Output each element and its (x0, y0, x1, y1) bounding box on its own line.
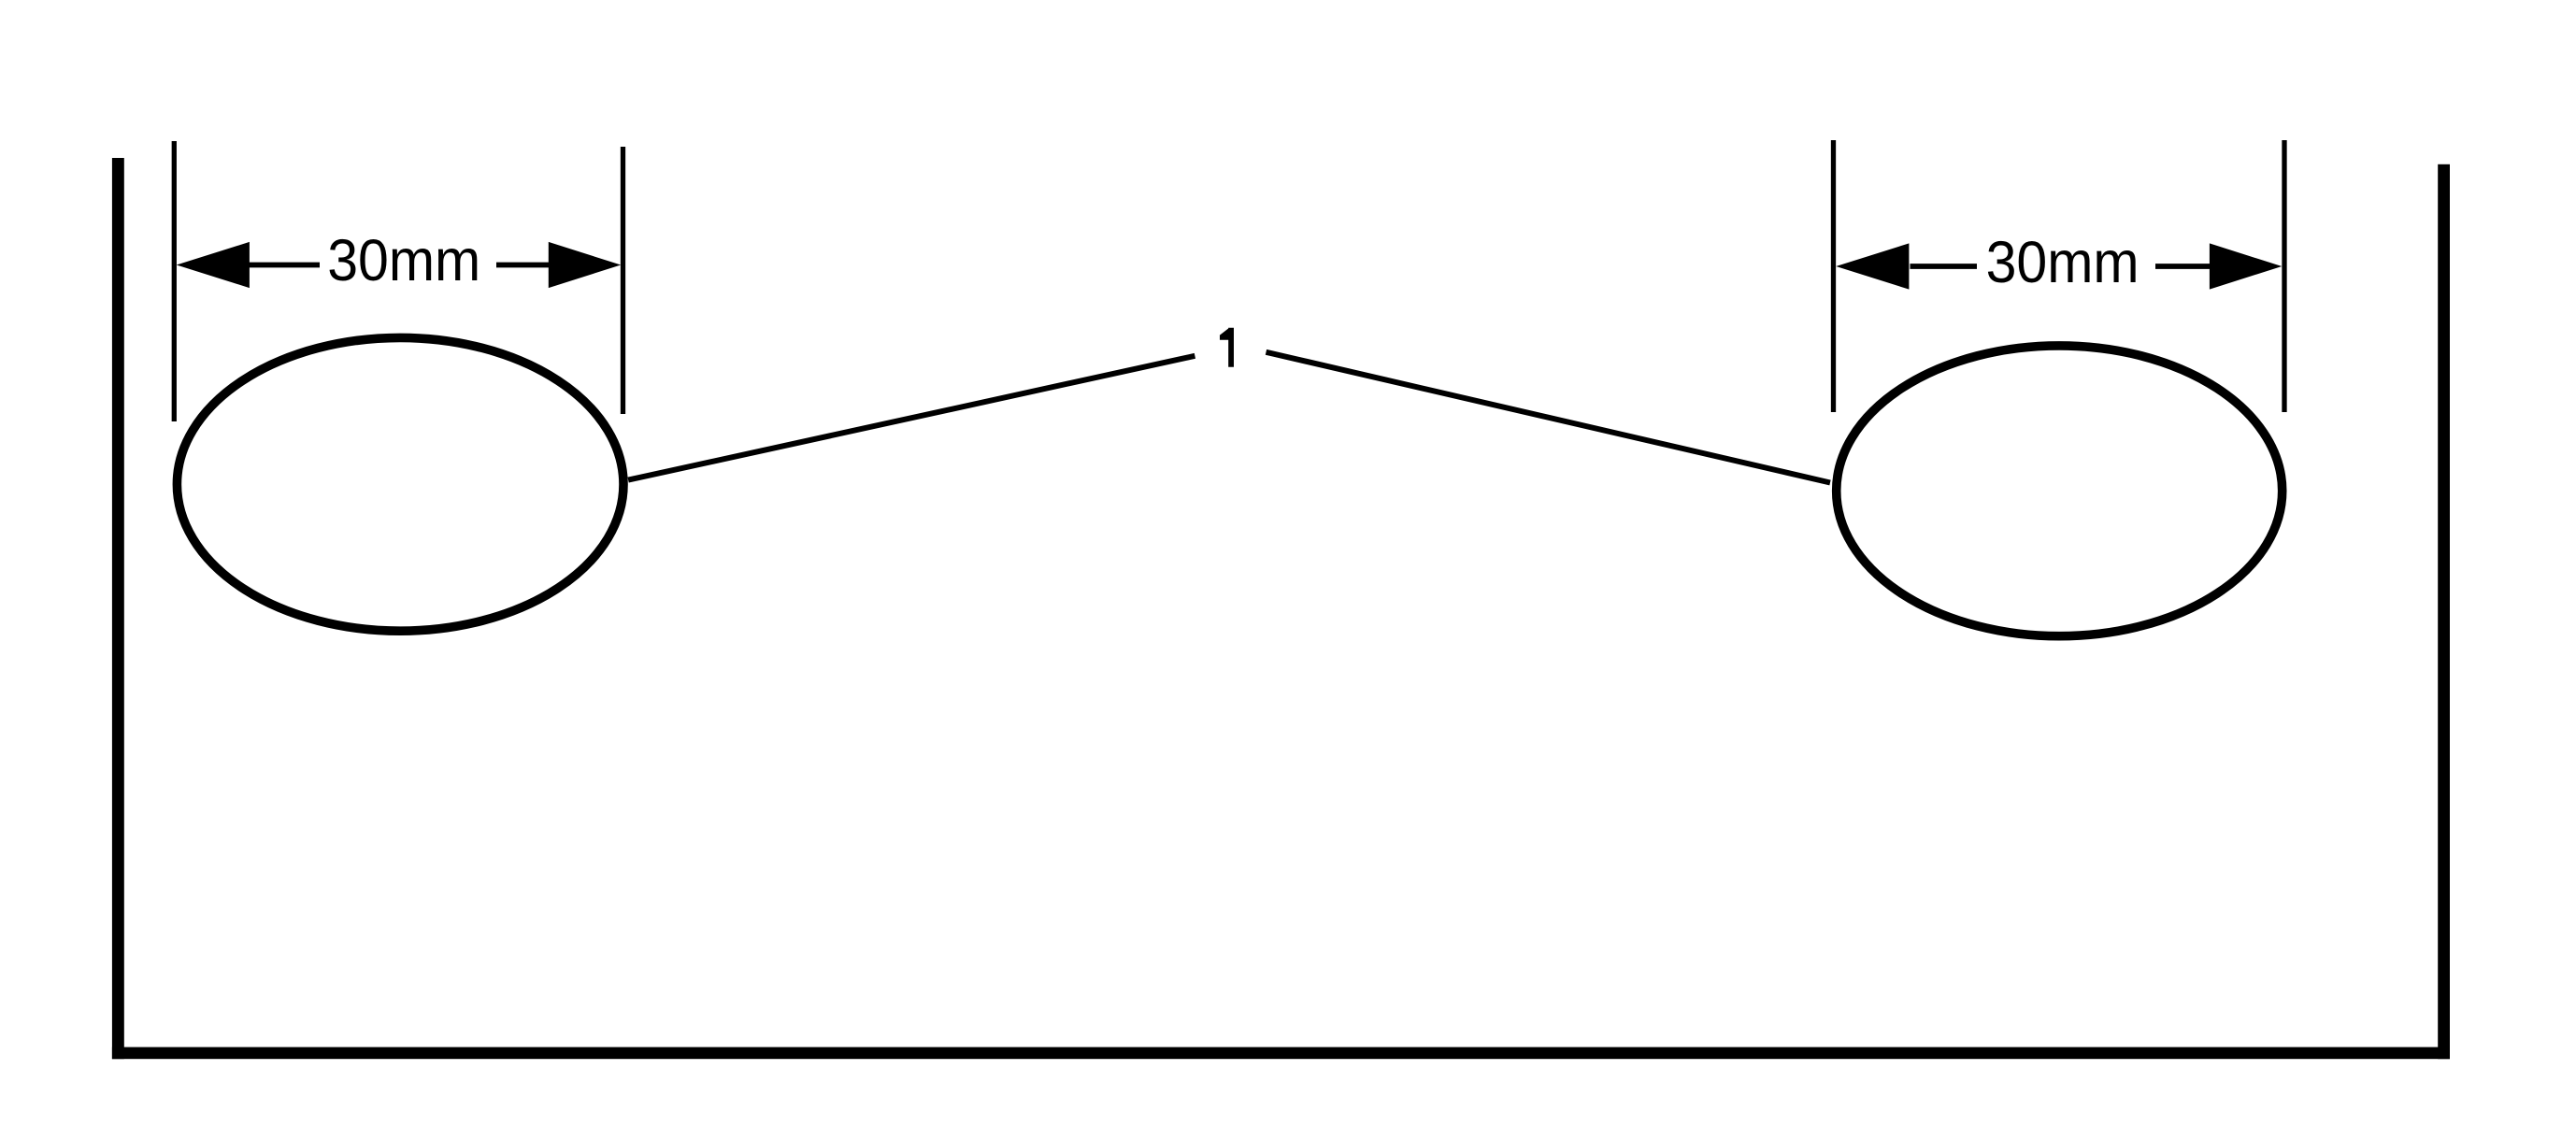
leader line from label 1 to right ellipse (1267, 352, 1831, 483)
svg-text:30mm: 30mm (1986, 230, 2140, 295)
part outline right wall (2438, 164, 2450, 1059)
arrowhead left dim, right (points right) (549, 242, 621, 288)
dimension shaft left dim, left segment (250, 263, 321, 268)
extension line left dim, left (172, 141, 177, 421)
hole ellipse right (item 1) (1837, 346, 2283, 636)
part outline left wall (112, 158, 124, 1059)
item label 1 (drawn as path, no foot serif) (1220, 328, 1234, 367)
dimension shaft right dim, right segment (2155, 264, 2210, 269)
part outline bottom edge (112, 1048, 2450, 1060)
dimension shaft left dim, right segment (496, 263, 550, 268)
extension line right dim, left (1831, 140, 1836, 412)
arrowhead right dim, left (points left) (1836, 243, 1909, 289)
extension line left dim, right (621, 147, 625, 414)
dimension shaft right dim, left segment (1911, 264, 1978, 269)
hole ellipse left (item 1) (177, 337, 623, 631)
extension line right dim, right (2282, 140, 2286, 412)
leader line from label 1 to left ellipse (628, 356, 1195, 480)
svg-text:30mm: 30mm (327, 228, 480, 293)
arrowhead left dim, left (points left) (177, 242, 250, 288)
arrowhead right dim, right (points right) (2210, 243, 2282, 289)
